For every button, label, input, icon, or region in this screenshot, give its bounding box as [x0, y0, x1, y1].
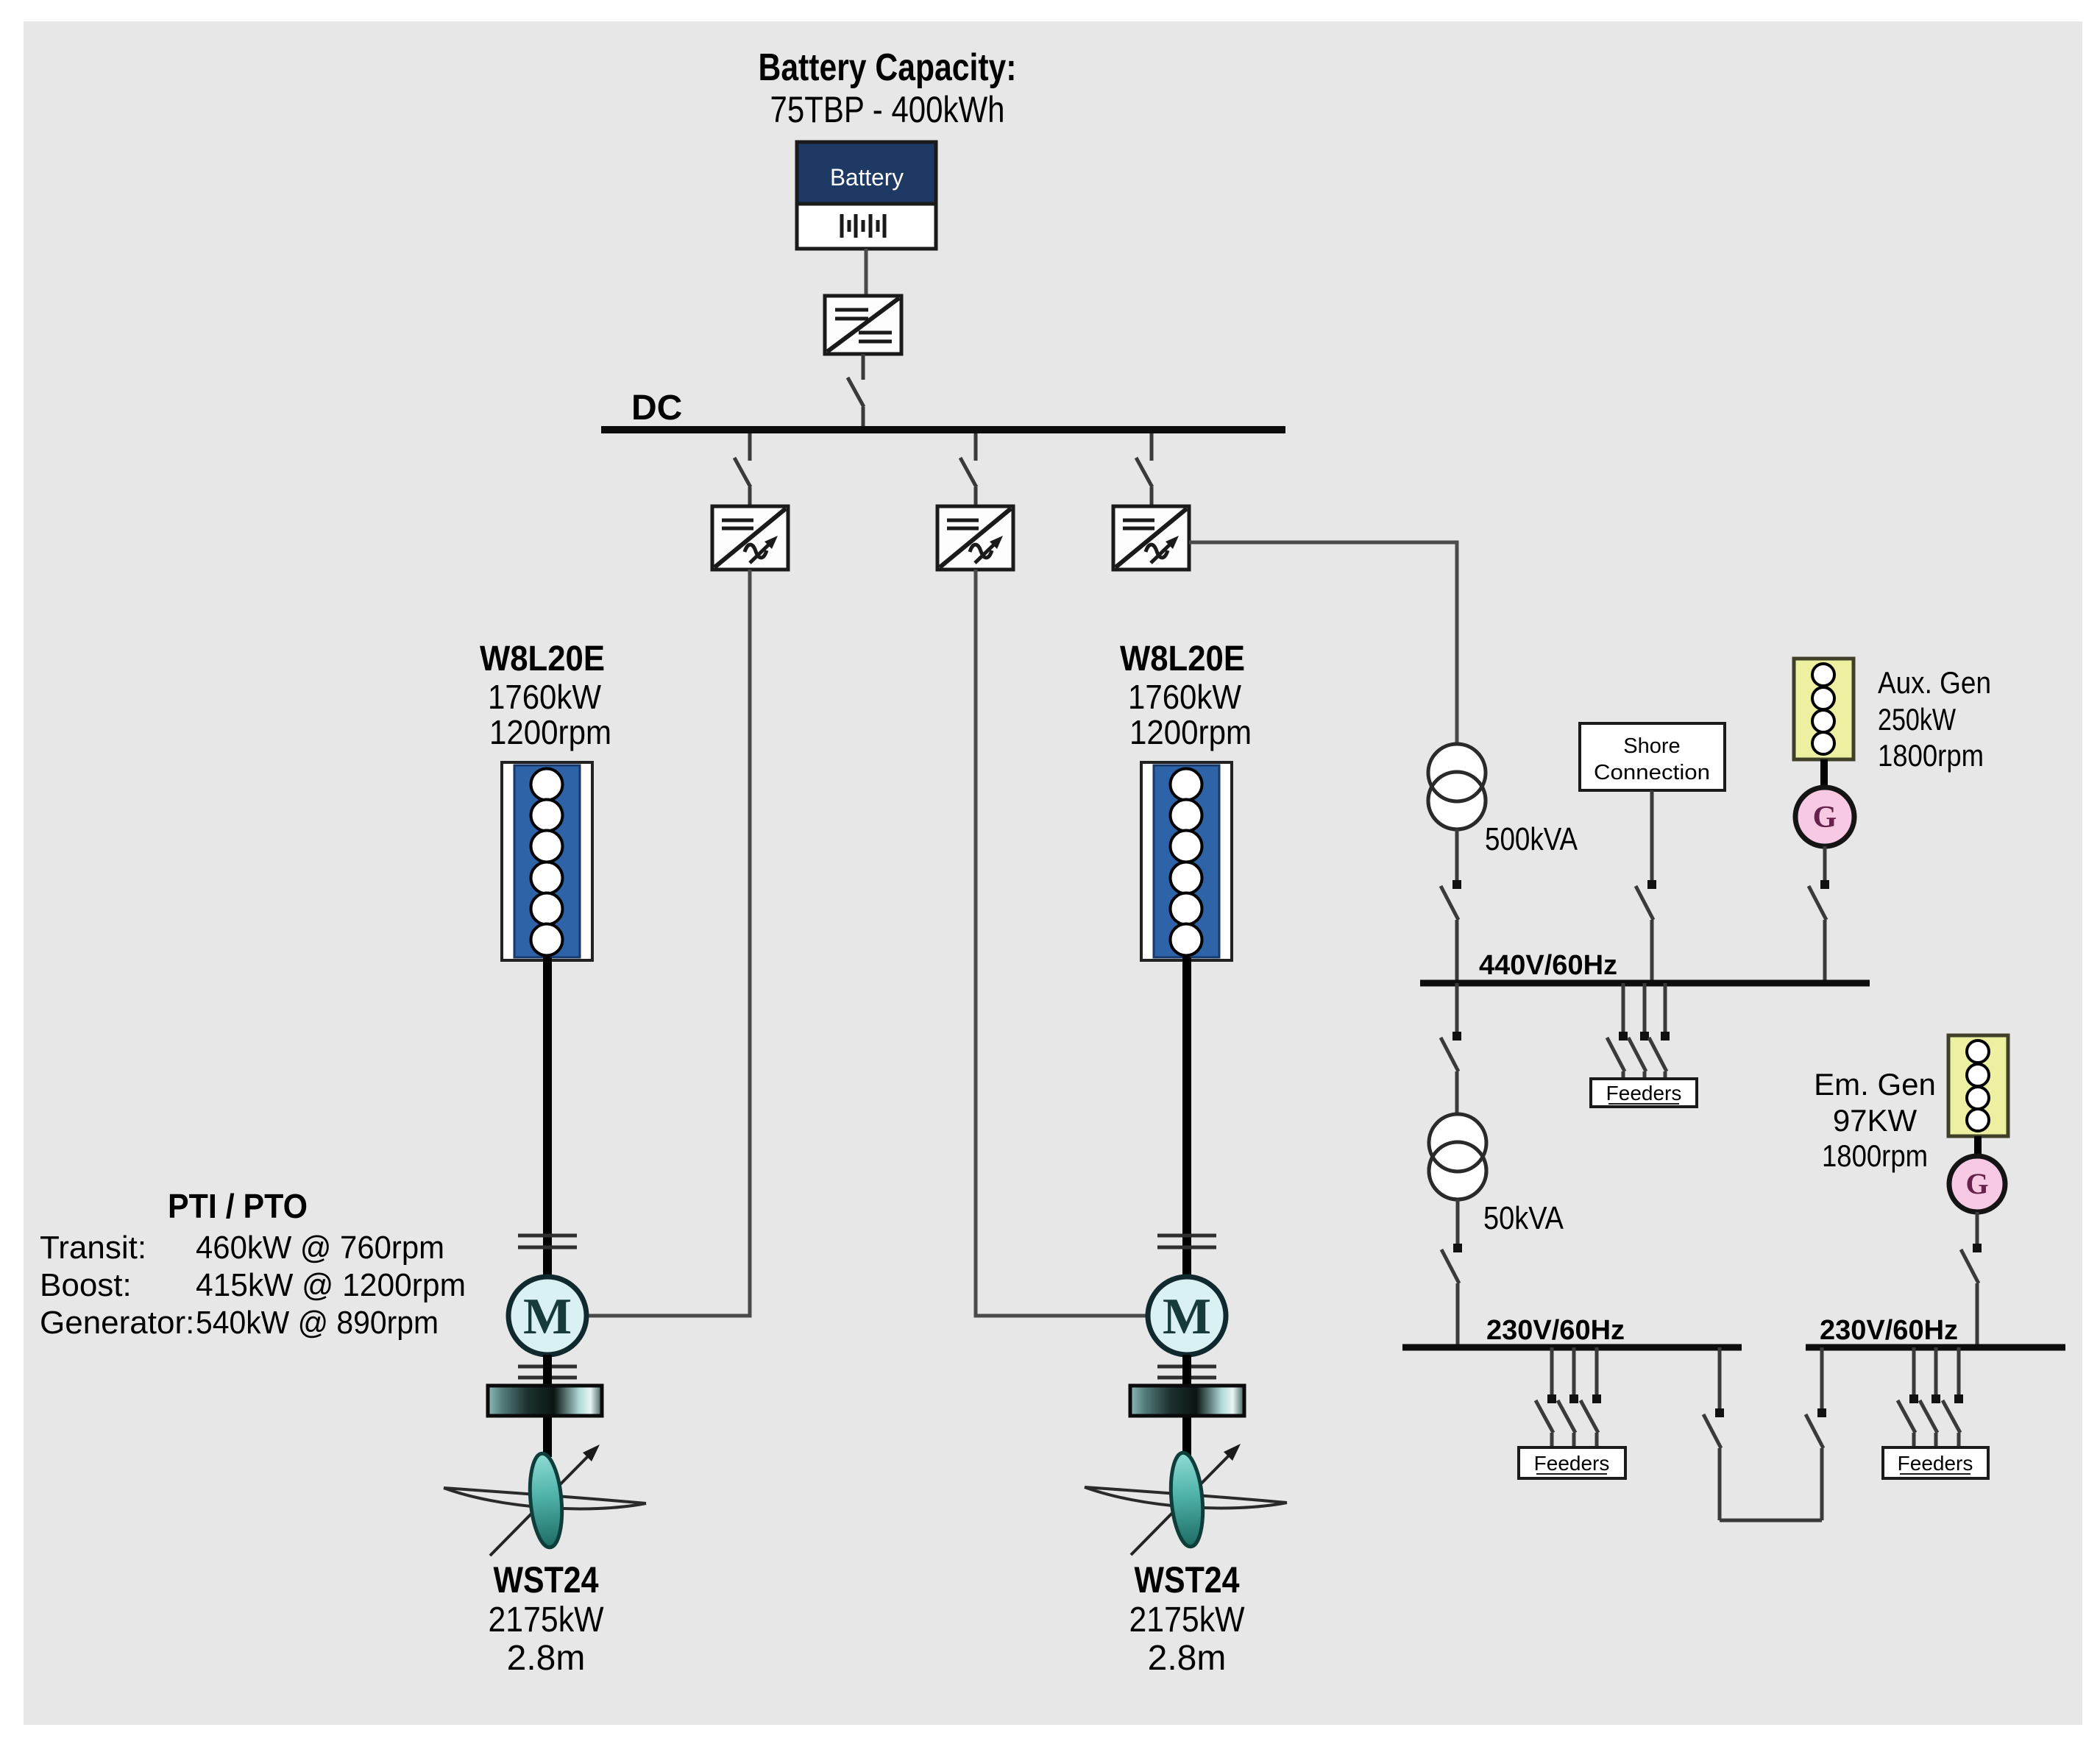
- breaker CB6 under G2: [1961, 1212, 1982, 1347]
- svg-text:M: M: [1163, 1288, 1211, 1345]
- svg-text:W8L20E: W8L20E: [1120, 639, 1245, 678]
- svg-text:Em. Gen: Em. Gen: [1814, 1067, 1936, 1102]
- svg-text:97KW: 97KW: [1833, 1103, 1918, 1138]
- svg-text:540kW @ 890rpm: 540kW @ 890rpm: [196, 1305, 439, 1341]
- svg-text:1800rpm: 1800rpm: [1878, 738, 1984, 773]
- switch S3 on DC bus drop 2: [960, 433, 976, 506]
- transformer T2 50kVA: [1429, 1114, 1486, 1199]
- feeders box F2: [1519, 1447, 1625, 1478]
- breaker CB8 feeder drop 2 under 440V bus: [1628, 983, 1649, 1079]
- inverter U4: [1113, 506, 1189, 570]
- shaft em engine to G2: [1974, 1136, 1982, 1158]
- svg-text:50kVA: 50kVA: [1483, 1200, 1564, 1236]
- em generator engine icon: [1948, 1035, 2008, 1136]
- svg-text:Feeders: Feeders: [1534, 1452, 1610, 1475]
- motor M1: [508, 1277, 586, 1355]
- shore connection box: [1580, 723, 1725, 790]
- breaker CB11 feeder drop 2 under 230V bus A: [1558, 1347, 1578, 1447]
- label Em generator: [1814, 1067, 1936, 1173]
- engine E2 W8L20E: [1141, 762, 1232, 960]
- bus tie wire: [1720, 1519, 1822, 1523]
- svg-text:75TBP - 400kWh: 75TBP - 400kWh: [770, 89, 1005, 130]
- svg-text:PTI / PTO: PTI / PTO: [168, 1187, 308, 1225]
- svg-text:Shore: Shore: [1623, 734, 1680, 758]
- aux generator engine icon: [1794, 659, 1854, 759]
- engine E1 W8L20E: [502, 762, 592, 960]
- label engine E2: [1120, 639, 1252, 751]
- svg-text:G: G: [1813, 801, 1837, 834]
- wire battery to converter U1: [865, 249, 868, 296]
- svg-text:G: G: [1965, 1167, 1988, 1200]
- label engine E1: [480, 639, 611, 751]
- svg-text:Battery Capacity:: Battery Capacity:: [759, 46, 1017, 89]
- svg-text:230V/60Hz: 230V/60Hz: [1820, 1315, 1958, 1346]
- breaker CB3 under G1: [1809, 846, 1829, 983]
- svg-text:Generator:: Generator:: [40, 1305, 194, 1341]
- transformer T1 500kVA: [1428, 744, 1486, 829]
- svg-text:Aux. Gen: Aux. Gen: [1878, 665, 1991, 700]
- svg-text:Transit:: Transit:: [40, 1230, 146, 1266]
- bus tie breaker right: [1806, 1347, 1826, 1520]
- gearbox GB1: [488, 1386, 602, 1416]
- bus 440V/60Hz: [1420, 980, 1870, 987]
- svg-text:1200rpm: 1200rpm: [1129, 713, 1252, 751]
- svg-text:440V/60Hz: 440V/60Hz: [1479, 950, 1617, 981]
- breaker CB1 under T1: [1441, 829, 1461, 983]
- svg-text:460kW @ 760rpm: 460kW @ 760rpm: [196, 1230, 444, 1266]
- label: Battery Capacity title: [759, 46, 1017, 130]
- svg-text:2175kW: 2175kW: [489, 1601, 605, 1640]
- svg-text:415kW @ 1200rpm: 415kW @ 1200rpm: [196, 1267, 466, 1303]
- wire U4 to transformer T1: [1189, 542, 1457, 744]
- bus 230V/60Hz B: [1806, 1344, 2065, 1351]
- shaft E1 to M1: [543, 957, 552, 1277]
- DC/DC converter U1: [825, 296, 901, 354]
- svg-text:WST24: WST24: [494, 1559, 599, 1601]
- label aux generator: [1878, 665, 1991, 773]
- breaker CB9 feeder drop 3 under 440V bus: [1649, 983, 1670, 1079]
- breaker CB5 under T2: [1441, 1199, 1462, 1347]
- wire U3 to motor M2: [976, 570, 1148, 1316]
- label PTI / PTO table: [40, 1187, 466, 1341]
- clutch E2 upper: [1157, 1236, 1216, 1247]
- svg-text:M: M: [523, 1288, 572, 1345]
- breaker CB17 feeder drop 3 under 230V bus B: [1943, 1347, 1963, 1447]
- wire U2 to motor M1: [586, 570, 750, 1316]
- shaft M1 to propeller P1: [543, 1355, 552, 1457]
- label propeller P2: [1129, 1559, 1246, 1678]
- svg-text:230V/60Hz: 230V/60Hz: [1486, 1315, 1625, 1346]
- svg-text:1800rpm: 1800rpm: [1822, 1138, 1928, 1173]
- svg-text:2.8m: 2.8m: [1148, 1639, 1227, 1678]
- switch S4 on DC bus drop 3: [1136, 433, 1152, 506]
- breaker CB7 feeder drop 1 under 440V bus: [1607, 983, 1628, 1079]
- svg-text:500kVA: 500kVA: [1485, 821, 1578, 857]
- svg-text:2175kW: 2175kW: [1129, 1601, 1246, 1640]
- svg-text:2.8m: 2.8m: [507, 1639, 586, 1678]
- inverter U3: [937, 506, 1013, 570]
- svg-text:Boost:: Boost:: [40, 1267, 132, 1303]
- breaker CB4 below 440V bus to T2: [1441, 983, 1461, 1114]
- motor M2: [1148, 1277, 1226, 1355]
- gearbox GB2: [1130, 1386, 1244, 1416]
- svg-text:Connection: Connection: [1594, 761, 1710, 784]
- switch S1 battery drop to DC bus: [848, 354, 864, 430]
- switch S2 on DC bus drop 1: [734, 433, 751, 506]
- feeders box F1: [1591, 1079, 1697, 1107]
- svg-text:W8L20E: W8L20E: [480, 639, 605, 678]
- svg-text:Battery: Battery: [830, 164, 904, 191]
- clutch E1 upper: [518, 1236, 577, 1247]
- breaker CB15 feeder drop 1 under 230V bus B: [1898, 1347, 1918, 1447]
- shaft aux engine to G1: [1820, 759, 1828, 788]
- label propeller P1: [489, 1559, 605, 1678]
- breaker CB12 feeder drop 3 under 230V bus A: [1581, 1347, 1601, 1447]
- shaft E2 to M2: [1182, 957, 1191, 1277]
- feeders box F3: [1883, 1447, 1988, 1478]
- svg-text:1200rpm: 1200rpm: [489, 713, 611, 751]
- svg-text:Feeders: Feeders: [1898, 1452, 1973, 1475]
- svg-text:DC: DC: [631, 389, 682, 428]
- svg-text:250kW: 250kW: [1878, 702, 1956, 737]
- DC bus: [601, 426, 1285, 433]
- svg-text:WST24: WST24: [1135, 1559, 1240, 1601]
- inverter U2: [712, 506, 788, 570]
- propeller P2 WST24: [1085, 1444, 1287, 1555]
- clutch E2 lower: [1157, 1367, 1216, 1378]
- generator G2: [1949, 1156, 2005, 1212]
- svg-text:1760kW: 1760kW: [1128, 678, 1242, 716]
- propeller P1 WST24: [444, 1445, 646, 1556]
- svg-text:1760kW: 1760kW: [488, 678, 602, 716]
- breaker CB16 feeder drop 2 under 230V bus B: [1920, 1347, 1940, 1447]
- svg-text:Feeders: Feeders: [1606, 1082, 1682, 1105]
- clutch E1 lower: [518, 1367, 577, 1378]
- shaft M2 to propeller P2: [1182, 1355, 1191, 1457]
- breaker CB2 under shore connection: [1636, 790, 1656, 983]
- bus 230V/60Hz A: [1402, 1344, 1742, 1351]
- generator G1: [1795, 787, 1854, 846]
- bus tie breaker left: [1703, 1347, 1724, 1520]
- breaker CB10 feeder drop 1 under 230V bus A: [1536, 1347, 1556, 1447]
- battery BAT1: [797, 142, 936, 249]
